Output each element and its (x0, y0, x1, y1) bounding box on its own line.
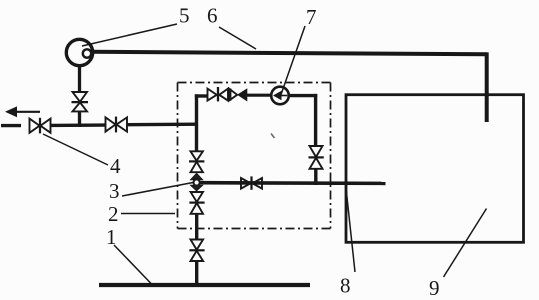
wire: pump discharge pipe 6 (horizontal) (91, 52, 487, 55)
wire: loop right vertical pipe (314, 94, 317, 147)
hatched cone upper (sampler inlet) (191, 173, 203, 179)
svg-text:4: 4 (110, 154, 121, 178)
boundary box top edge (178, 82, 331, 84)
node: sampling point circle (item 3) (194, 179, 200, 185)
leader line to label 3 (122, 183, 193, 197)
pump outlet port circle (83, 49, 91, 57)
discharge arrow (flow out) (5, 106, 40, 117)
leader line to label 1 (114, 245, 152, 285)
boundary box (dash-dot enclosure) left edge (177, 83, 179, 229)
wire: suction header to loop column (127, 122, 198, 126)
boundary box right edge (330, 83, 332, 229)
wire: loop left vertical pipe (195, 94, 198, 151)
pump P1 (item 5) (66, 39, 92, 65)
svg-text:2: 2 (108, 202, 119, 226)
leader line to label 6 (219, 27, 256, 49)
gate valve lower on left column (item 2) (189, 192, 204, 214)
leader line to label 7 (281, 26, 306, 96)
valve V4b on suction header (106, 117, 128, 133)
svg-text:9: 9 (429, 276, 440, 300)
svg-text:7: 7 (306, 5, 317, 29)
wire: pipe 6 drop into tank (485, 52, 489, 122)
leader line to label 5 (82, 24, 177, 46)
wire: loop top pipe right segment (289, 94, 317, 97)
wire: pump suction stem (78, 65, 81, 93)
check valve on loop top pipe (229, 89, 247, 101)
leader line to label 8 (346, 188, 355, 272)
gate valve on loop top pipe (208, 87, 229, 101)
gate valve below boundary (189, 240, 204, 262)
leader line to label 2 (121, 213, 175, 215)
hatched cone lower (sampler outlet) (191, 185, 203, 191)
wire: stem below valve to suction header (78, 111, 81, 127)
valve on loop right vertical (309, 146, 324, 169)
wire: column stem to bottom header (195, 261, 198, 286)
flow device (item 7) (271, 87, 289, 105)
wire: right stem to transfer pipe (314, 168, 317, 185)
valve on transfer pipe (241, 176, 262, 189)
svg-text:6: 6 (207, 4, 218, 28)
boundary box bottom edge (178, 228, 331, 230)
tank T1 (item 9) (346, 95, 524, 243)
valve on pump stem (72, 92, 89, 111)
svg-text:8: 8 (340, 274, 351, 298)
svg-text:3: 3 (109, 179, 120, 203)
wire: transfer pipe to tank (item 8) (199, 181, 386, 185)
wire: loop top pipe left segment (195, 94, 208, 97)
wire: column stem through boundary (195, 213, 198, 240)
gate valve upper on left column (189, 151, 204, 172)
scan mark (271, 134, 275, 139)
wire: pipe to flow device (247, 94, 272, 97)
svg-text:1: 1 (106, 225, 117, 249)
wire: suction header left stub (1, 124, 21, 127)
leader line to label 9 (444, 209, 487, 278)
leader line to label 4 (43, 134, 108, 165)
wire: suction header middle (51, 123, 106, 127)
bottom header line (item 1) (99, 283, 310, 287)
valve V4 (item 4) (30, 118, 51, 134)
svg-text:5: 5 (179, 4, 190, 28)
